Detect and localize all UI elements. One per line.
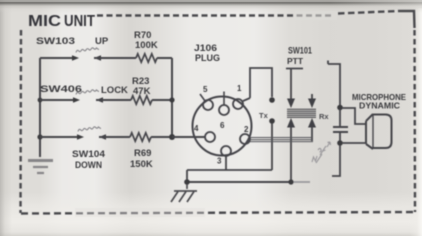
pin 3: [221, 146, 231, 156]
switch SW104 squiggle: [78, 127, 101, 132]
wire pin3 down: [225, 156, 227, 170]
svg-text:47K: 47K: [133, 86, 151, 97]
wire TX bottom lead down: [271, 123, 273, 170]
svg-text:100K: 100K: [135, 40, 158, 51]
junction dot bus-left/LOCK: [38, 98, 43, 103]
junction dot ground bus left: [184, 179, 190, 185]
wire SW101 area to microphone top: [328, 61, 340, 106]
svg-text:3: 3: [217, 157, 222, 166]
connector J106 body circle: [193, 97, 252, 156]
svg-text:5: 5: [203, 85, 208, 94]
capacitor leads: [339, 109, 341, 141]
wire pin3 horizontal run: [187, 169, 272, 171]
svg-text:UNIT: UNIT: [64, 13, 95, 30]
switch SW103 wire right: [94, 57, 136, 59]
svg-text:150K: 150K: [130, 159, 153, 170]
node mic top dot: [337, 105, 343, 111]
svg-text:MIC: MIC: [28, 13, 61, 30]
svg-text:DYNAMIC: DYNAMIC: [359, 101, 400, 111]
switch SW103 contact arrows: [72, 55, 79, 61]
svg-text:2: 2: [244, 125, 249, 134]
dashed border top-right corner: [398, 11, 415, 28]
wire mic bottom dot to mic: [342, 142, 366, 144]
switch SW104 contact arrows: [77, 134, 84, 140]
svg-text:1: 1: [237, 84, 242, 93]
switch SW101 left top arrow: [287, 99, 295, 109]
wire R69 to bus-right: [151, 136, 172, 138]
svg-text:R69: R69: [134, 148, 151, 159]
switch SW104 wire right: [99, 136, 130, 138]
wire mic top dot to mic: [342, 108, 366, 124]
pin 5: [203, 100, 213, 110]
node TX top dot: [269, 97, 275, 103]
handwritten annotation 6/4 N/7: [312, 142, 331, 163]
switch SW101 wiper hatch bar: [287, 109, 316, 117]
node mic bottom dot: [337, 140, 343, 146]
dashed border bottom: [21, 212, 415, 214]
switch SW101 PTT underline: [286, 68, 303, 70]
microphone symbol MC1: [366, 114, 392, 149]
svg-text:6: 6: [220, 121, 225, 130]
dashed border left: [19, 30, 22, 213]
ground bus wire: [187, 181, 291, 183]
resistor R69: [130, 133, 151, 141]
pin 2: [240, 134, 250, 144]
dashed border top right segment: [338, 11, 398, 14]
pin 4: [205, 132, 215, 142]
wire down to ground bus: [186, 170, 188, 182]
wire R70 to bus-right: [157, 57, 172, 59]
switch SW103 squiggle: [76, 48, 99, 53]
switch SW406 contact arrows: [73, 97, 80, 103]
svg-text:UP: UP: [95, 36, 109, 47]
svg-text:PTT: PTT: [287, 56, 304, 66]
resistor R23: [131, 96, 152, 104]
dashed border top: [97, 14, 332, 16]
switch SW103 (UP) wire left: [40, 57, 73, 59]
dashed border top fade overlay: [295, 11, 337, 20]
svg-text:LOCK: LOCK: [101, 85, 128, 96]
svg-text:Tx: Tx: [259, 111, 269, 120]
wire R23 to bus-right: [152, 99, 172, 101]
node bus-left: [39, 58, 41, 157]
switch SW406 squiggle: [76, 90, 99, 95]
svg-text:SW103: SW103: [36, 36, 75, 47]
wire pin1 riser to TX contact: [243, 68, 272, 101]
capacitor plates: [333, 126, 348, 128]
pin 6: [219, 105, 229, 115]
svg-text:4: 4: [194, 124, 199, 133]
pin 6 stub: [223, 92, 225, 106]
pin 5 keyway stub: [200, 94, 205, 101]
switch SW101 right top arrow: [308, 99, 316, 109]
wire bundle pin2 to SW101: [250, 138, 313, 142]
svg-text:J106: J106: [194, 43, 217, 53]
wire mic bottom lead down: [332, 145, 340, 176]
dashed border right: [413, 30, 416, 212]
svg-text:PLUG: PLUG: [195, 53, 220, 63]
ground G2 chassis symbol: [171, 184, 197, 202]
svg-text:SW406: SW406: [40, 84, 82, 95]
switch SW101 right bottom arrow: [308, 118, 316, 128]
switch SW101 left post lead down: [290, 127, 292, 182]
junction dot bus-right/LOCK: [169, 97, 174, 102]
wire bus-right to plug pin 4: [172, 136, 205, 138]
resistor R70: [136, 54, 157, 62]
junction dot bus-right/DOWN: [169, 134, 175, 140]
junction dot ground bus / SW101: [288, 179, 293, 184]
junction dot bus-left/DOWN: [37, 134, 42, 139]
switch SW101 left bottom arrow: [287, 118, 295, 128]
switch SW406 (LOCK) wire left: [40, 99, 74, 101]
pin 1: [233, 99, 243, 109]
switch SW101 right post lead: [311, 94, 313, 100]
dashed border bottom fade overlay: [75, 208, 205, 217]
node TX bottom dot: [269, 118, 275, 124]
switch SW104 (DOWN) wire left: [40, 136, 78, 138]
svg-text:SW101: SW101: [288, 46, 312, 56]
node bus-right: [171, 58, 173, 137]
switch SW406 wire right: [96, 99, 131, 101]
ground bus fading tail: [291, 181, 310, 183]
ground G1: [28, 161, 53, 174]
svg-text:DOWN: DOWN: [75, 160, 102, 171]
switch SW101 left post lead: [290, 69, 292, 100]
svg-text:Rx: Rx: [319, 112, 329, 121]
svg-text:SW104: SW104: [72, 149, 106, 160]
switch SW101 right post lead down: [311, 127, 313, 141]
